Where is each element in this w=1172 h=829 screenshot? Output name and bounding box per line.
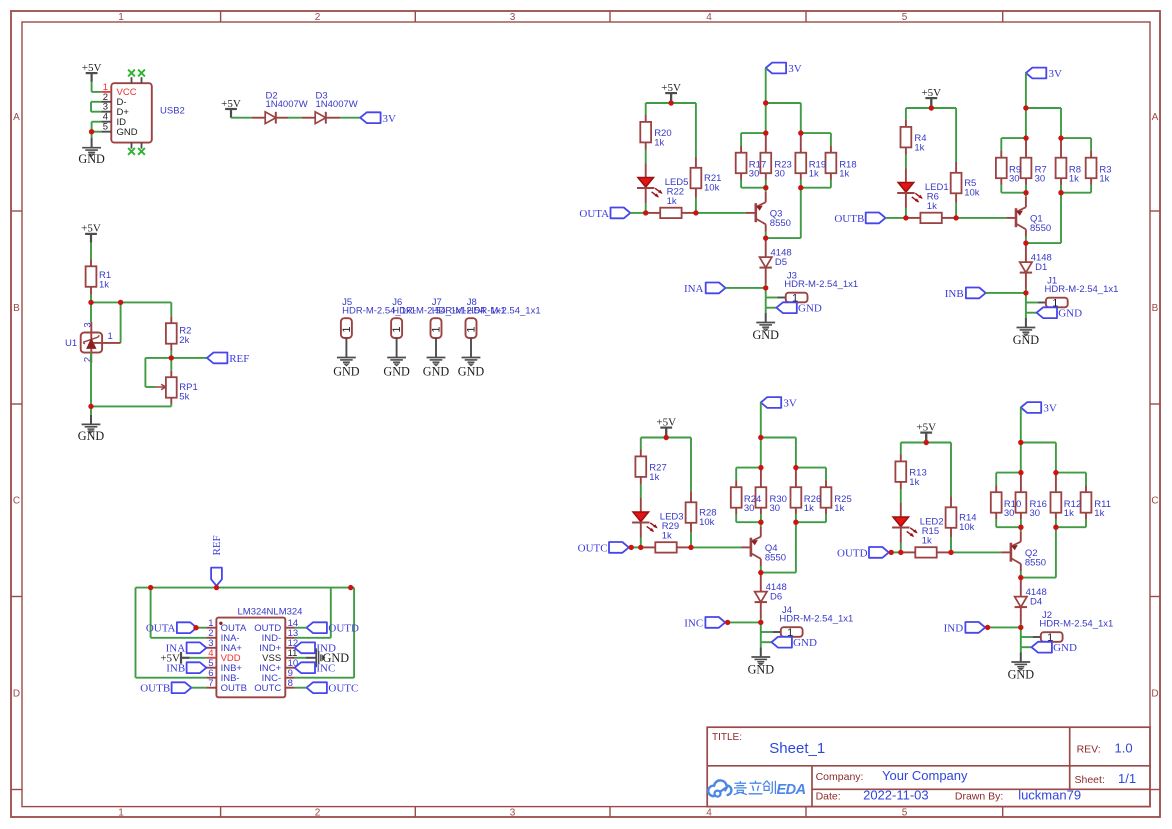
diode D6 4148 [755, 573, 787, 619]
wire 3V to right pair (Q4) [761, 438, 796, 468]
wire pair bus top right (Q1) [1061, 138, 1091, 151]
svg-text:GND: GND [1053, 642, 1077, 654]
resistor R17 30 [736, 146, 747, 180]
svg-text:EDA: EDA [777, 782, 806, 798]
wire OUTC flag to node [629, 546, 641, 548]
label R9 30 [1009, 164, 1021, 184]
wire R28 to out row [690, 532, 692, 547]
wire pair bus top right (Q3) [801, 133, 831, 146]
connector J4 HDR-M-2.54_1x1 [779, 605, 853, 639]
wire R16 bottom [1020, 519, 1022, 527]
title block Drawn By [955, 787, 1081, 802]
wire ref branch down [120, 302, 122, 343]
wire 3V to right pair (Q1) [1026, 108, 1061, 138]
wire pair bus top left (Q2) [996, 473, 1021, 486]
svg-text:1k: 1k [839, 168, 849, 179]
svg-text:luckman79: luckman79 [1018, 787, 1081, 802]
wire U1 pin2 down [90, 353, 92, 407]
label R10 30 [1004, 499, 1021, 519]
wire 3V to left pair (Q1) [1025, 108, 1027, 138]
svg-text:30: 30 [774, 168, 785, 179]
svg-text:3: 3 [83, 322, 94, 327]
svg-text:GND: GND [333, 364, 360, 378]
ground GND (Q4 block) [748, 642, 775, 676]
svg-text:GND: GND [78, 429, 105, 443]
svg-text:INC: INC [684, 617, 703, 629]
LM324 pin 7 OUTB [206, 678, 247, 694]
wire OUTA flag to node [630, 212, 645, 214]
wire pair bus bottom left (Q2) [996, 526, 1021, 528]
net flag OUTA [146, 622, 197, 634]
wire 3V to left pair (Q3) [765, 103, 767, 133]
junction base node (Q4) [688, 545, 693, 550]
connector J1 HDR-M-2.54_1x1 [1045, 275, 1119, 309]
wire 3V to right pair (Q2) [1021, 443, 1056, 473]
resistor R2 2k [166, 317, 192, 351]
net flag INA (Q3 block) [684, 283, 726, 295]
USB2 no-connect pins bottom [128, 143, 145, 155]
ground GND (J5) [333, 358, 360, 379]
svg-text:5: 5 [902, 808, 908, 819]
wire diode to in node (Q4) [760, 619, 762, 623]
net flag INB [166, 662, 206, 674]
svg-text:2022-11-03: 2022-11-03 [863, 787, 929, 802]
svg-text:Drawn By:: Drawn By: [955, 790, 1003, 802]
wire LED to out node (Q2) [900, 543, 902, 553]
title block Sheet_1 [769, 740, 825, 757]
junction REF [169, 355, 174, 360]
svg-text:2: 2 [315, 12, 321, 23]
wire LED to out node (Q1) [905, 208, 907, 218]
junction +5V (Q4) [664, 435, 669, 440]
wire R18 bottom [830, 180, 832, 188]
wire REF to RP1 wiper [145, 358, 171, 387]
resistor R21 10k [691, 157, 722, 198]
junction 3V (Q4) [758, 435, 763, 440]
net flag INB (Q1 block) [945, 288, 986, 300]
wire R12 bottom [1055, 519, 1057, 527]
transistor Q2 8550 [1011, 542, 1046, 569]
LED LED2 [892, 503, 943, 543]
wire R13 to LED [900, 489, 902, 503]
diode D5 4148 [760, 238, 792, 284]
power flag +5V (Q2 block) [916, 421, 936, 442]
LM324 pin 3 INA+ [206, 638, 242, 654]
junction base node (Q2) [948, 550, 953, 555]
junction collector (Q4) [758, 570, 763, 575]
svg-text:GND: GND [748, 663, 775, 677]
wire R21 to out row [695, 198, 697, 213]
svg-text:GND: GND [798, 303, 822, 315]
wire D3 to 3V flag [326, 117, 360, 119]
wire base (Q1) [956, 217, 1016, 219]
wire emitter up (Q3) [765, 188, 767, 203]
svg-text:10k: 10k [699, 517, 715, 528]
svg-text:GND: GND [117, 127, 138, 138]
wire RP1 to ground rail [91, 404, 171, 407]
svg-text:REF: REF [211, 535, 223, 555]
net flag 3V (Q2 block) [1021, 402, 1057, 414]
net flag REF [207, 353, 249, 366]
J6 pin to ground [396, 338, 398, 358]
label R26 1k [804, 494, 821, 514]
label R30 30 [770, 494, 787, 514]
svg-text:1.0: 1.0 [1115, 741, 1133, 756]
net flag OUTD (Q2 block) [837, 547, 889, 559]
junction USB GND [89, 129, 94, 134]
wire pair bus top left (Q4) [736, 468, 761, 481]
svg-text:D6: D6 [770, 592, 782, 603]
connector USB2 body [111, 83, 152, 142]
wire pin8 to OUTC flag [295, 687, 307, 689]
J8 pin to ground [470, 338, 472, 358]
net flag INC [295, 662, 336, 674]
svg-text:C: C [13, 496, 20, 507]
wire R20 to LED [645, 150, 647, 164]
junction IND tip [985, 625, 990, 630]
power flag +5V (Q1 block) [921, 87, 941, 108]
net flag 3V (diode chain) [360, 112, 396, 125]
wire +5V rail (Q2) [901, 443, 951, 497]
junction ground rail [88, 404, 93, 409]
wire R4 to LED [905, 155, 907, 169]
svg-text:1k: 1k [1069, 173, 1079, 184]
svg-text:30: 30 [1004, 508, 1015, 519]
net flag GND (Q2 block) [1032, 642, 1077, 654]
svg-text:8: 8 [288, 678, 293, 689]
resistor R30 30 [756, 468, 767, 514]
LM324 pin 12 IND+ [259, 638, 298, 654]
svg-text:OUTD: OUTD [328, 623, 359, 635]
wire R27 to LED [640, 484, 642, 498]
junction base node (Q3) [693, 210, 698, 215]
wire R2 to REF node [170, 351, 172, 358]
resistor R6 1k [906, 192, 956, 223]
title block Date [816, 787, 929, 802]
wire pair bus bottom right (Q2) [1056, 526, 1086, 528]
junction OUTA flag [193, 625, 198, 630]
wire bus to INC- (pin9) [295, 588, 355, 678]
wire pair bus bottom right (Q3) [801, 187, 831, 189]
resistor R29 1k [641, 521, 691, 553]
svg-text:OUTD: OUTD [837, 547, 868, 559]
junction +5V (Q1) [929, 105, 934, 110]
svg-text:Sheet_1: Sheet_1 [769, 740, 825, 757]
svg-text:30: 30 [770, 503, 781, 514]
wire diode to in node (Q1) [1025, 289, 1027, 293]
label R18 1k [839, 159, 856, 179]
svg-text:1: 1 [118, 808, 124, 819]
junction R1 bottom [88, 300, 93, 305]
LM324 pin 9 INC- [262, 668, 295, 684]
wire pair bus bottom right (Q4) [796, 521, 826, 523]
svg-text:1k: 1k [667, 196, 677, 207]
ground GND (J7) [423, 358, 450, 379]
LM324 pin 2 INA- [206, 628, 239, 644]
wire D- to D+ loop [91, 102, 101, 112]
wire diode to in node (Q2) [1020, 624, 1022, 628]
wire to GND flag (Q2) [1021, 637, 1032, 647]
wire pair bus top left (Q1) [1001, 138, 1026, 151]
svg-text:8550: 8550 [765, 553, 786, 564]
svg-text:OUTC: OUTC [578, 542, 608, 554]
USB2 pin 3 D+ [101, 102, 129, 118]
svg-text:INB: INB [945, 288, 964, 300]
label R12 1k [1064, 499, 1081, 519]
svg-text:REV:: REV: [1077, 744, 1101, 756]
resistor R23 30 [760, 133, 771, 179]
svg-text:3: 3 [510, 808, 516, 819]
svg-text:5: 5 [103, 122, 108, 133]
title block TITLE [712, 732, 742, 743]
LED LED3 [632, 498, 683, 538]
svg-text:4: 4 [706, 12, 712, 23]
svg-text:3V: 3V [1049, 68, 1063, 80]
power flag +5V (LM324 pin4) [160, 652, 189, 665]
resistor R27 1k [635, 450, 666, 485]
svg-text:1k: 1k [909, 477, 919, 488]
wire pair bus bottom left (Q4) [736, 521, 761, 523]
label R8 1k [1069, 164, 1081, 184]
wire LED to out node (Q3) [645, 203, 647, 213]
power flag +5V (USB2) [82, 62, 102, 82]
wire pair bus bottom right (Q1) [1061, 192, 1091, 194]
svg-text:1: 1 [118, 12, 124, 23]
LED LED5 [637, 164, 688, 204]
svg-text:1/1: 1/1 [1118, 771, 1136, 786]
wire pair bus top right (Q2) [1056, 473, 1086, 486]
svg-text:D1: D1 [1035, 262, 1047, 273]
wire R23 bottom [765, 180, 767, 188]
svg-text:5k: 5k [179, 392, 189, 403]
wire bus to IND- (pin13) [295, 588, 331, 638]
svg-text:1: 1 [391, 326, 403, 332]
op-amp U1 TL431 [65, 322, 102, 363]
junction collector (Q3) [763, 235, 768, 240]
svg-text:1N4007W: 1N4007W [266, 99, 308, 110]
LM324 pin 8 OUTC [254, 678, 294, 694]
svg-text:3V: 3V [1043, 403, 1057, 415]
wire base (Q2) [951, 551, 1011, 553]
svg-text:U1: U1 [65, 338, 77, 349]
resistor R15 1k [901, 526, 951, 558]
svg-text:1: 1 [431, 326, 443, 332]
net flag GND (Q1 block) [1037, 307, 1082, 319]
svg-text:1: 1 [341, 326, 353, 332]
wire USB pin5 to ground [91, 132, 93, 138]
svg-text:GND: GND [752, 328, 779, 342]
wire R3 bottom [1090, 185, 1092, 193]
wire OUTA flag to pin1 [197, 627, 207, 629]
transistor Q1 8550 [1016, 207, 1051, 234]
junction bus1 (Q1) [1023, 135, 1028, 140]
wire INC flag to node [725, 621, 761, 623]
wire pair bus bottom left (Q1) [1001, 192, 1026, 194]
net flag 3V (Q3 block) [766, 63, 802, 75]
svg-text:1k: 1k [809, 168, 819, 179]
junction right bus [348, 585, 353, 590]
junction in node (Q2) [1018, 625, 1023, 630]
connector J7 HDR-M-2.54_1x1 [431, 297, 506, 338]
LM324 pin 10 INC+ [259, 658, 298, 674]
label R24 30 [744, 494, 761, 514]
wire REF node to flag [171, 357, 207, 359]
svg-text:GND: GND [458, 364, 485, 378]
svg-text:1k: 1k [649, 472, 659, 483]
resistor R19 1k [795, 133, 806, 179]
connector J8 HDR-M-2.54_1x1 [466, 297, 541, 338]
svg-text:HDR-M-2.54_1x1: HDR-M-2.54_1x1 [467, 305, 541, 316]
resistor R4 1k [901, 120, 927, 155]
wire to GND flag (Q3) [766, 298, 777, 308]
resistor R24 30 [731, 481, 742, 515]
junction bus3 (Q3) [763, 185, 768, 190]
title block Sheet [1075, 771, 1137, 786]
USB2 no-connect pins top [128, 70, 145, 84]
wire to J2 (Q2) [1021, 627, 1041, 637]
wire emitter up (Q1) [1025, 193, 1027, 208]
title block Company [816, 768, 968, 783]
net flag INC (Q4 block) [684, 617, 725, 629]
svg-text:HDR-M-2.54_1x1: HDR-M-2.54_1x1 [784, 279, 858, 290]
J7 pin to ground [435, 338, 437, 358]
net flag OUTA (Q3 block) [579, 208, 630, 220]
ground GND (U1) [78, 406, 105, 443]
svg-text:1k: 1k [914, 143, 924, 154]
wire +5V to USB2 pin 1 [92, 82, 102, 92]
diode D1 4148 [1020, 243, 1052, 289]
ground GND (Q3 block) [752, 308, 779, 342]
junction bus1 (Q3) [763, 130, 768, 135]
connector J5 HDR-M-2.54_1x1 [341, 297, 416, 338]
svg-text:GND: GND [383, 364, 410, 378]
junction bus4 (Q4) [793, 520, 798, 525]
svg-text:B: B [1152, 303, 1159, 314]
svg-text:1k: 1k [927, 201, 937, 212]
title block frame [707, 727, 1150, 806]
ground GND (LM324 pin11) [295, 648, 350, 667]
junction out node (Q1) [903, 215, 908, 220]
svg-text:Your Company: Your Company [882, 768, 968, 783]
svg-text:5: 5 [902, 12, 908, 23]
svg-text:D: D [1151, 689, 1158, 700]
resistor R10 30 [991, 486, 1002, 520]
net flag OUTC (LM324) [307, 682, 359, 694]
ground GND (J6) [383, 358, 410, 379]
wire collector down (Q1) [1025, 229, 1027, 243]
wire OUTB flag to node [886, 217, 906, 219]
wire +5V rail (Q1) [906, 108, 956, 162]
svg-text:IND: IND [944, 622, 964, 634]
wire INB flag to node [986, 292, 1026, 294]
wire R1 to node [90, 295, 92, 303]
label R25 1k [834, 494, 851, 514]
svg-text:8550: 8550 [1030, 223, 1051, 234]
label R7 30 [1035, 164, 1047, 184]
svg-text:1k: 1k [922, 535, 932, 546]
wire +5V to R1 [90, 243, 92, 260]
svg-text:4: 4 [706, 808, 712, 819]
wire emitter up (Q4) [760, 522, 762, 537]
label R19 1k [809, 159, 826, 179]
svg-text:1k: 1k [662, 530, 672, 541]
svg-text:30: 30 [749, 168, 760, 179]
svg-text:30: 30 [744, 503, 755, 514]
svg-text:30: 30 [1009, 173, 1020, 184]
wire R19 bottom [800, 180, 802, 188]
junction bus3 (Q4) [758, 520, 763, 525]
potentiometer RP1 5k [156, 358, 198, 404]
wire right pair to collector (Q4) [761, 522, 796, 572]
wire R8 bottom [1060, 185, 1062, 193]
wire collector down (Q2) [1020, 564, 1022, 578]
junction bus3 (Q1) [1023, 190, 1028, 195]
svg-text:OUTB: OUTB [834, 213, 864, 225]
net flag IND (Q2 block) [944, 622, 986, 634]
junction left branch [148, 585, 153, 590]
svg-text:OUTB: OUTB [221, 683, 247, 694]
wire R24 bottom [735, 514, 737, 522]
junction +5V (Q3) [668, 100, 673, 105]
junction bus2 (Q3) [798, 130, 803, 135]
svg-text:Company:: Company: [816, 771, 864, 783]
resistor R1 1k [86, 260, 112, 295]
U1 pin 1 [94, 331, 121, 343]
net flag 3V (Q4 block) [761, 397, 797, 409]
op-amp U2 LM324 body [216, 606, 302, 697]
junction OUTC tip [629, 545, 634, 550]
wire right pair to collector (Q2) [1021, 527, 1056, 577]
svg-text:LM324NLM324: LM324NLM324 [238, 606, 303, 617]
connector J3 HDR-M-2.54_1x1 [784, 270, 858, 304]
USB2 pin 4 ID [101, 112, 126, 128]
transistor Q4 8550 [751, 537, 786, 564]
svg-text:3: 3 [510, 12, 516, 23]
resistor R25 1k [821, 481, 832, 515]
junction OUTD tip [889, 550, 894, 555]
svg-text:OUTA: OUTA [579, 208, 609, 220]
wire R30 bottom [760, 514, 762, 522]
net flag OUTB (Q1 block) [834, 213, 885, 225]
svg-text:A: A [13, 112, 20, 123]
ground GND (J8) [458, 358, 485, 379]
LM324 pin 13 IND- [262, 628, 299, 644]
label R23 30 [774, 159, 791, 179]
wire right pair to collector (Q3) [766, 188, 801, 238]
svg-text:GND: GND [793, 637, 817, 649]
wire LED to out node (Q4) [640, 538, 642, 548]
svg-text:REF: REF [229, 353, 249, 365]
wire R7 bottom [1025, 185, 1027, 193]
junction bus4 (Q2) [1053, 525, 1058, 530]
connector J6 HDR-M-2.54_1x1 [391, 297, 466, 338]
resistor R14 10k [946, 497, 977, 538]
svg-text:GND: GND [1008, 668, 1035, 682]
wire bus to INB- (pin6) [136, 588, 207, 678]
junction collector (Q2) [1018, 575, 1023, 580]
svg-text:8550: 8550 [1025, 558, 1046, 569]
net flag OUTC (Q4 block) [578, 542, 629, 554]
net flag INA [166, 642, 207, 654]
resistor R16 30 [1016, 473, 1027, 519]
wire R9 bottom [1000, 185, 1002, 193]
power flag +5V (diode chain) [221, 98, 241, 118]
svg-text:1k: 1k [654, 138, 664, 149]
wire ID to GND loop [92, 122, 102, 132]
LM324 pin 4 VDD [206, 648, 240, 664]
power flag +5V (U1) [81, 223, 101, 243]
wire 3V down (Q4) [760, 403, 762, 438]
